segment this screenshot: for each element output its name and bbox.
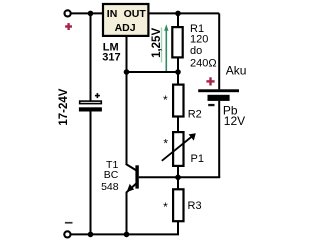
wire collector lead vertical — [126, 72, 128, 165]
svg-text:17-24V: 17-24V — [58, 88, 70, 125]
svg-text:*: * — [163, 200, 168, 214]
svg-text:IN: IN — [107, 8, 118, 20]
capacitor C1 plate top — [80, 101, 102, 104]
svg-text:BC: BC — [104, 169, 119, 181]
svg-text:12V: 12V — [224, 114, 245, 128]
node ADJ junction — [124, 69, 130, 75]
svg-text:R3: R3 — [188, 200, 202, 212]
svg-text:ADJ: ADJ — [115, 22, 136, 34]
capacitor C1 plate bottom — [79, 107, 102, 111]
capacitor C1 polarity + — [95, 93, 100, 98]
regulator U1 LM317 box — [103, 4, 148, 36]
transistor T1 base bar — [135, 165, 138, 188]
node base junction — [175, 175, 181, 181]
potentiometer P1 — [173, 132, 183, 166]
node R1 bottom junction — [175, 69, 181, 75]
potentiometer P1 arrow — [162, 133, 196, 161]
wire bottom rail — [70, 233, 179, 235]
terminal minus output — [64, 231, 70, 237]
transistor T1 emitter arrowhead — [127, 184, 135, 192]
label - output (minus) — [65, 222, 73, 224]
node R1 top junction — [175, 11, 181, 17]
wire emitter lead vertical — [126, 192, 128, 234]
wire ADJ lead — [126, 37, 128, 72]
resistor R3 — [173, 189, 183, 221]
svg-text:do: do — [190, 45, 202, 57]
wire R3 bottom stub — [177, 221, 179, 234]
svg-text:*: * — [163, 136, 168, 150]
wire base rail — [139, 176, 220, 178]
wire battery top lead — [218, 13, 220, 89]
wire P1 bottom stub — [177, 166, 179, 177]
battery B1 plate negative — [208, 95, 230, 101]
node capacitor bottom junction — [88, 232, 94, 238]
svg-text:*: * — [163, 93, 168, 107]
svg-text:317: 317 — [102, 52, 120, 64]
wire ADJ to R1 bottom — [127, 71, 179, 73]
label + battery (red) — [206, 77, 214, 85]
wire top rail right segment — [149, 12, 219, 14]
svg-text:120: 120 — [190, 34, 208, 46]
svg-text:P1: P1 — [191, 153, 204, 165]
resistor R1 — [172, 27, 182, 57]
transistor T1 emitter diagonal — [126, 183, 136, 192]
svg-text:1,25V: 1,25V — [151, 28, 163, 58]
svg-text:OUT: OUT — [124, 8, 147, 20]
annotation arrow 1,25V (green) — [164, 24, 168, 71]
svg-text:R2: R2 — [188, 108, 202, 120]
svg-text:240Ω: 240Ω — [190, 57, 217, 69]
node capacitor top junction — [88, 11, 94, 17]
battery B1 plate positive — [198, 89, 239, 92]
svg-text:Aku: Aku — [226, 64, 247, 78]
label + input (red) — [65, 23, 72, 30]
terminal plus input — [65, 10, 71, 16]
transistor T1 collector diagonal — [126, 164, 137, 171]
wire R2 top stub — [177, 72, 179, 85]
wire R1 top stub — [177, 13, 179, 27]
wire top rail left segment — [71, 12, 102, 14]
wire capacitor bottom lead — [90, 112, 92, 235]
wire R2 bottom stub — [177, 117, 179, 132]
label - battery — [208, 104, 214, 106]
annotation underline 1,25V (pale green) — [161, 28, 163, 63]
wire battery bottom lead — [218, 101, 220, 177]
wire R3 top stub — [177, 177, 179, 189]
node emitter bottom junction — [124, 232, 130, 238]
wire R1 bottom stub — [177, 59, 179, 73]
resistor R2 — [173, 85, 183, 117]
svg-text:548: 548 — [101, 181, 119, 193]
wire capacitor top lead — [90, 13, 92, 100]
